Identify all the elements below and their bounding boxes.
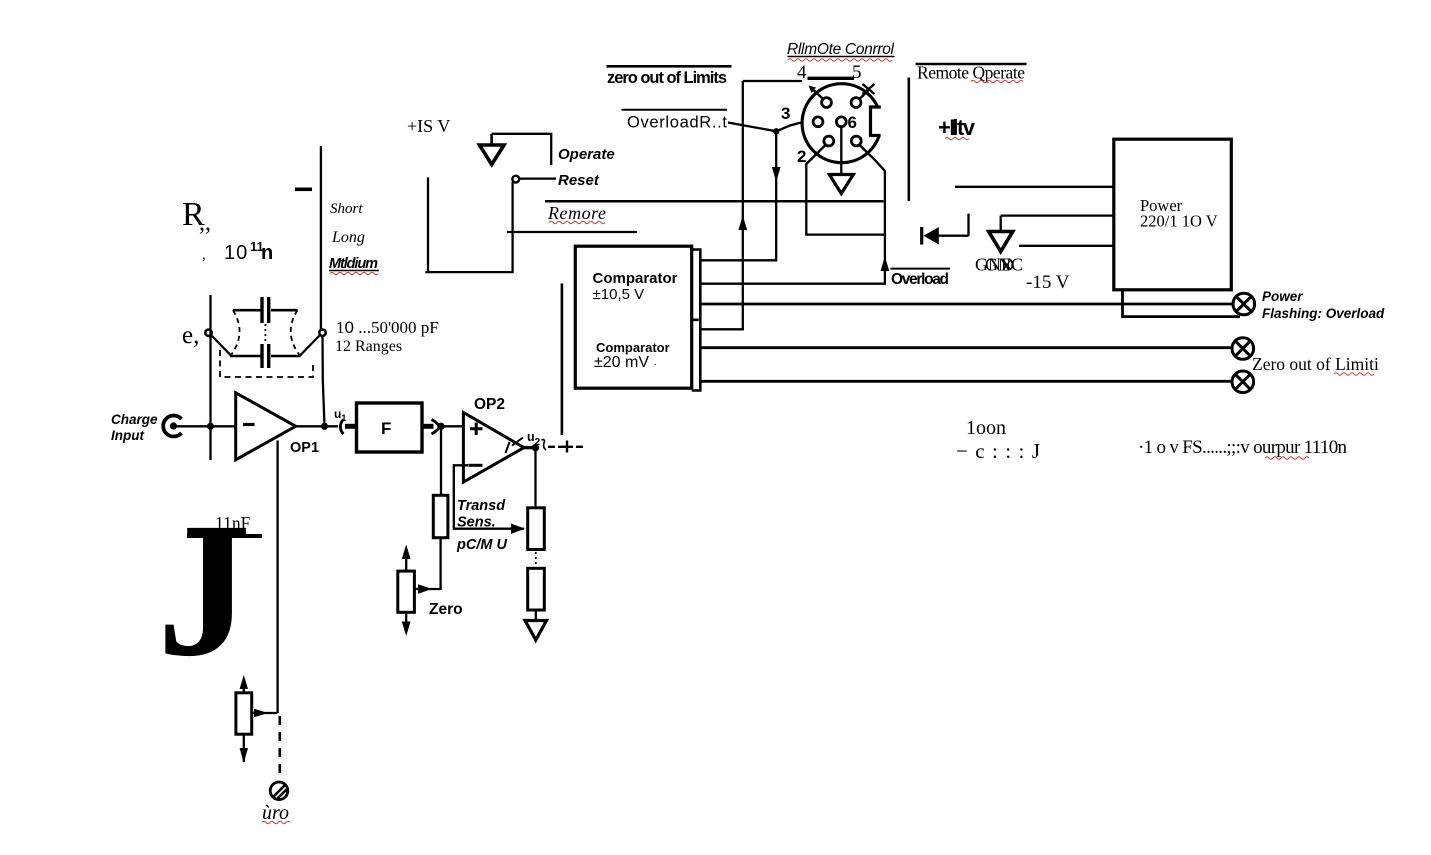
dashed switch arc right [291, 310, 300, 355]
wire gnd rail to power [1001, 214, 1114, 216]
svg-text:Flashing: Overload: Flashing: Overload [1262, 306, 1385, 321]
wire ground stem [1000, 216, 1002, 232]
svg-text:Long: Long [331, 229, 365, 246]
wire OP2 output [524, 446, 536, 449]
svg-text:RllmOte Conrrol: RllmOte Conrrol [787, 41, 895, 58]
dashed lead to earth [278, 716, 281, 778]
artifact giant J glyph [157, 483, 251, 697]
trimmer adjust arrow up [243, 686, 245, 693]
lamp Zero out of Limits [1232, 338, 1254, 360]
svg-text:Zero: Zero [429, 601, 463, 618]
arrowhead down on x776 [772, 167, 781, 182]
pin 6 (centre) [836, 117, 846, 127]
overline Remote Operate [916, 63, 1027, 66]
bar between 4 and 5 [808, 77, 855, 80]
input summing vertical wire [209, 295, 211, 460]
svg-text:OverloadR..t: OverloadR..t [627, 114, 727, 132]
ground (power) [989, 232, 1013, 252]
svg-text:±20 mV ·: ±20 mV · [594, 354, 657, 371]
svg-text:F: F [381, 419, 391, 438]
pin 4 lead with arrowhead [813, 89, 823, 99]
svg-text:Reset: Reset [558, 172, 600, 189]
resistor sens divider top [528, 508, 545, 550]
wire power to lamp (L) [1123, 290, 1241, 317]
wire pin1 lead down (x885) [700, 146, 885, 284]
comparator side rail [692, 250, 701, 391]
svg-text:±10,5 V: ±10,5 V [593, 286, 645, 303]
svg-text:Input: Input [111, 428, 144, 443]
connector keyway notch [868, 107, 883, 137]
svg-text:·1 o v FS......;;:v ourpur 111: ·1 o v FS......;;:v ourpur 1110n [1138, 437, 1348, 458]
svg-text:Overload: Overload [891, 271, 949, 288]
svg-text:Comparator: Comparator [596, 340, 670, 355]
trimmer adjust arrow down [243, 734, 245, 762]
wire reset contact [519, 177, 556, 179]
wire comparator to power lamp [700, 303, 1233, 306]
svg-text:Zero out of Limiti: Zero out of Limiti [1252, 354, 1379, 374]
capacitor C-range-b (bottom, selected) [230, 344, 301, 368]
wire junction to pin3 [776, 122, 813, 131]
svg-text:Charge: Charge [111, 412, 158, 427]
wire vertical to comparator (x742) [700, 81, 743, 329]
node e1 (open circle) [205, 330, 211, 336]
svg-text:Power: Power [1262, 289, 1303, 304]
wire -15 rail to power [1019, 245, 1114, 247]
wire OP1 output [296, 425, 338, 427]
pin 4 (top-left) [822, 98, 832, 108]
dashed range-module box [220, 350, 313, 377]
svg-text:Operate: Operate [558, 146, 615, 163]
svg-text:,: , [202, 247, 206, 263]
svg-text:Remote Qperate: Remote Qperate [917, 63, 1025, 83]
label GND overlapped [975, 255, 1023, 275]
artifact scribble right of u2 [542, 440, 547, 450]
svg-text:OP2: OP2 [474, 396, 505, 413]
wire OP2plus node down [440, 426, 442, 496]
wire OP2 minus feedback [454, 465, 524, 528]
wire resistor to zero node [415, 538, 441, 589]
svg-text:pC/M U: pC/M U [456, 537, 507, 553]
ground (divider) [525, 621, 547, 641]
zero pot adjust arrow up [405, 556, 407, 571]
svg-text:5: 5 [852, 62, 862, 83]
svg-text:,,: ,, [199, 210, 211, 236]
overline zero out of Limits [607, 65, 732, 68]
wire vertical pin3 to comparator (x776) [700, 131, 776, 260]
charge input connector [163, 415, 181, 436]
svg-text:Sens.: Sens. [457, 515, 496, 531]
svg-text:n: n [261, 242, 273, 264]
monitor line to comparator [561, 284, 564, 436]
wire +15 rail to power [955, 186, 1114, 188]
wire input to OP1 [177, 425, 236, 427]
wire switch return [425, 177, 512, 272]
wire remote rail [545, 200, 884, 203]
wire switch blade right [300, 335, 321, 356]
wire u2 down to divider [534, 448, 536, 508]
resistor sens divider bottom [528, 568, 545, 610]
pin 5 lead with cross [860, 89, 870, 99]
arrowhead into sens divider [511, 524, 525, 534]
lamp Power [1233, 293, 1255, 315]
svg-text:220/1 1O V: 220/1 1O V [1140, 212, 1218, 231]
supply symbol (open triangle) [490, 134, 493, 145]
capacitor 11nF plate [187, 534, 262, 538]
ground (connector) [829, 175, 853, 194]
svg-text:Remore: Remore [547, 203, 606, 223]
wire to OP2 plus [441, 425, 464, 427]
wire overload-reset slant to junction [728, 123, 776, 132]
wire below remote [507, 231, 637, 233]
earth ground (hatched circle) [270, 782, 288, 800]
node range top (open circle) [319, 330, 325, 336]
svg-text:10 ...50'000 pF: 10 ...50'000 pF [336, 318, 439, 337]
artifact slashes at OP2 apex [506, 438, 524, 454]
filter block F [357, 403, 423, 452]
wire comparator to zero lamp [700, 346, 1232, 349]
plug symbol OP1-F [340, 420, 343, 435]
svg-text:2: 2 [797, 147, 806, 166]
svg-text:6: 6 [848, 113, 857, 132]
dashed switch arc left [231, 310, 240, 355]
arrowhead zero wiper [418, 584, 432, 593]
svg-text:Comparator: Comparator [593, 270, 678, 287]
wire comparator to third lamp [700, 380, 1232, 383]
DIN connector body [802, 84, 881, 163]
svg-text:1oon: 1oon [966, 417, 1006, 439]
svg-text:J: J [157, 483, 251, 697]
comparator stub to pin3 line [700, 259, 776, 261]
junction OP2 plus node [437, 423, 444, 430]
svg-text:4: 4 [797, 62, 807, 83]
pin 1 (bottom-right) [851, 136, 861, 146]
wire operate contact [492, 134, 552, 165]
svg-text:X: X [1002, 257, 1012, 274]
op-amp OP1 [236, 393, 296, 460]
diode [922, 214, 969, 245]
wire switch blade left [211, 335, 232, 356]
power supply block [1114, 139, 1232, 290]
arrowhead trimmer wiper [254, 709, 268, 718]
junction pin3 node [773, 128, 779, 134]
svg-text:3: 3 [781, 104, 790, 123]
svg-text:+IS V: +IS V [407, 116, 450, 136]
svg-text:Transd: Transd [457, 498, 506, 514]
svg-text:zero out of Limits: zero out of Limits [607, 69, 727, 87]
overline Overload R..t [622, 109, 728, 111]
svg-text:OP1: OP1 [290, 440, 319, 456]
overline Overload [891, 268, 951, 270]
wire pin2 lead down [806, 146, 884, 235]
potentiometer trimmer [236, 693, 252, 734]
dotted continuation between capacitors [264, 324, 266, 342]
svg-text:Short: Short [330, 201, 363, 217]
lamp third [1232, 371, 1254, 393]
svg-text:ùro: ùro [262, 802, 289, 824]
reset contact (open circle) [512, 176, 519, 183]
pin 2 (bottom-left) [824, 136, 834, 146]
plug symbol F-OP2 [432, 420, 440, 435]
op-amp OP2 [463, 413, 524, 483]
svg-text:10: 10 [224, 242, 248, 264]
pin 3 (mid-left) [813, 117, 823, 127]
wire vertical beside Remote Operate [907, 78, 910, 202]
wire zero-out-of-limits to pin4 [743, 80, 802, 82]
svg-text:Mtldium: Mtldium [329, 256, 378, 272]
junction input node [207, 423, 214, 430]
svg-text:+I​ltv: +I​ltv [938, 115, 976, 140]
arrowhead up on x885 [881, 257, 890, 272]
pin 5 (top-right) [851, 98, 861, 108]
feedback vertical wire [323, 336, 325, 426]
svg-text:e,: e, [182, 322, 199, 349]
wire divider to ground [535, 610, 537, 621]
dotted link between divider resistors [535, 552, 537, 567]
wire F output stub [422, 424, 434, 429]
label Rii (feedback resistor) [182, 196, 273, 264]
resistor series input [433, 495, 448, 537]
capacitor C-range-a (top) [233, 297, 298, 323]
wire pin6 to ground [840, 127, 842, 175]
trimmer wiper wire [252, 712, 278, 714]
svg-text:-15 V: -15 V [1026, 272, 1070, 293]
minus sign [295, 188, 312, 192]
comparator block [575, 246, 691, 388]
junction OP1 output [321, 423, 328, 430]
junction u2 [532, 444, 539, 451]
svg-text:12 Ranges: 12 Ranges [335, 338, 402, 355]
label Charge Input [111, 412, 158, 443]
potentiometer Zero [398, 571, 415, 612]
time-constant switch line [320, 146, 322, 331]
zero pot adjust arrow down [405, 612, 407, 624]
wire OP1 lower vertical [276, 441, 278, 714]
arrowhead up on x742 [738, 216, 747, 231]
